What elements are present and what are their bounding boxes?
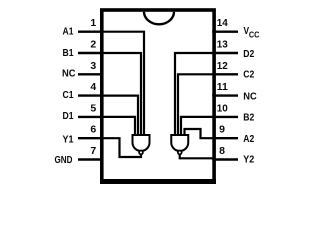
svg-text:Y2: Y2	[243, 153, 254, 165]
svg-text:10: 10	[217, 102, 228, 114]
svg-text:GND: GND	[55, 154, 73, 166]
pin 11 stub	[212, 94, 238, 96]
svg-text:D1: D1	[63, 110, 74, 122]
pin 14 stub	[212, 31, 238, 33]
svg-text:5: 5	[90, 102, 96, 114]
svg-text:13: 13	[217, 39, 228, 51]
svg-text:A1: A1	[63, 25, 74, 37]
wire D1 pin5 to gate G1 input	[102, 117, 135, 136]
svg-text:C1: C1	[63, 89, 74, 101]
svg-text:2: 2	[90, 39, 96, 51]
wire B1 pin2 to gate G1 input	[102, 53, 141, 136]
svg-text:9: 9	[219, 124, 225, 136]
svg-text:14: 14	[217, 17, 228, 29]
wire A2 pin9 to gate G2 input	[185, 129, 215, 138]
svg-text:D2: D2	[243, 48, 254, 60]
wire C2 pin12 to gate G2 input	[178, 74, 214, 136]
pin 13 stub	[212, 52, 238, 54]
wire D2 pin13 to gate G2 input	[175, 53, 214, 136]
svg-text:NC: NC	[243, 90, 257, 102]
svg-text:11: 11	[217, 81, 228, 93]
IC body bottom edge (thicker)	[100, 179, 216, 184]
pin 9 stub	[212, 137, 238, 139]
pin 6 stub	[78, 137, 103, 139]
svg-text:C2: C2	[243, 69, 254, 81]
svg-text:NC: NC	[62, 68, 76, 80]
gate G2 output bubble	[178, 151, 182, 155]
pin 4 stub	[78, 94, 103, 96]
pin 1 stub	[78, 31, 103, 33]
svg-text:12: 12	[217, 60, 228, 72]
gate G1 4-input NAND body	[133, 135, 150, 151]
svg-text:6: 6	[90, 124, 96, 136]
pin 2 stub	[78, 52, 103, 54]
svg-text:A2: A2	[243, 133, 254, 145]
pin 5 stub	[78, 116, 103, 118]
wire Y2 gate G2 output to pin8	[180, 154, 214, 158]
svg-text:7: 7	[90, 145, 96, 157]
svg-text:8: 8	[219, 145, 225, 157]
wire A1 pin1 to gate G1 input	[102, 32, 144, 136]
pin 8 stub	[212, 158, 238, 160]
svg-text:B1: B1	[63, 47, 74, 59]
svg-text:B2: B2	[243, 112, 254, 124]
svg-text:CC: CC	[249, 30, 260, 40]
wire C1 pin4 to gate G1 input	[102, 96, 138, 136]
gate G1 output bubble	[139, 151, 143, 155]
pin 12 stub	[212, 73, 238, 75]
svg-text:Y1: Y1	[63, 134, 74, 146]
pin 7 stub	[78, 158, 103, 160]
svg-text:4: 4	[90, 81, 96, 93]
wire B2 pin10 to gate G2 input	[181, 117, 214, 136]
svg-text:3: 3	[90, 60, 96, 72]
svg-text:1: 1	[90, 17, 96, 29]
wire Y1 gate G1 output to pin6	[102, 138, 141, 157]
pin 3 stub	[78, 73, 103, 75]
gate G2 4-input NAND body	[171, 135, 188, 151]
pin 10 stub	[212, 116, 238, 118]
IC body DIP-14 outline	[102, 10, 214, 182]
IC notch (pin-1 index)	[144, 12, 174, 24]
